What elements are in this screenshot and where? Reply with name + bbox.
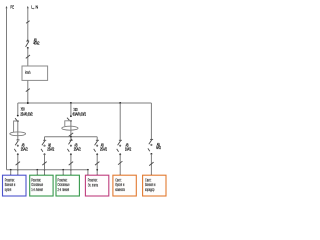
switch branch6 blade [148,148,150,151]
switch branch1 blade [14,149,16,152]
wire branch2 lower [44,145,46,147]
bus 2 horizontal [45,136,98,138]
wire branch3 to bus2 [70,121,72,137]
svg-text:25А/2: 25А/2 [74,147,81,152]
breaker branch1 tick [17,139,20,141]
svg-text:10А/2: 10А/2 [125,146,132,151]
switch branch2 bottom contact dot [44,153,46,155]
PE feeder arrow [6,6,8,8]
junction dot branch3 on bus1 [70,102,72,104]
wire L,N mid [27,48,29,66]
switch branch3 bottom contact dot [70,153,72,155]
PE stub to box4 [87,169,89,176]
conductor slash branch6 [149,162,153,166]
PE bus horizontal [7,169,88,171]
breaker branch3 tick [70,139,73,141]
wire branch4 to box [96,154,98,175]
wire branch3 to box [70,154,72,175]
box entry dot branch1 [17,175,19,177]
wire branch2 from bus2 [44,137,46,141]
switch branch6 bottom contact dot [150,153,152,155]
label AB 6A/2 branch6 [156,142,161,150]
label AB 10A/2 branch5 [125,143,132,152]
RCD UZO2 differential transformer ellipse [62,126,78,130]
wire PE vertical [6,8,8,170]
wire branch1 lower [17,145,19,147]
svg-text:6А/2: 6А/2 [156,145,161,150]
label UZO1 [20,107,33,117]
RCD UZO2 bottom contact dot [70,120,72,122]
svg-text:kWh: kWh [25,70,31,75]
breaker branch1 dot [17,145,19,147]
load box 3 sockets main line2 [56,175,79,196]
circuit breaker QF1 top contact dot [27,40,28,41]
breaker branch4 blade [95,141,98,146]
crossing dot branch3 PE bus [70,169,72,171]
wire branch3 from bus2 down [70,137,72,141]
RCD UZO1 bottom contact dot [17,120,19,122]
switch branch5 bottom contact dot [119,153,121,155]
wire branch3 lower [70,145,72,147]
junction dot L,N to bus1 [27,102,29,104]
svg-text:Эл. плита: Эл. плита [88,183,99,188]
wire L,N vertical upper [27,8,29,41]
RCD UZO1 blade [15,118,17,120]
RCD UZO1 top contact dot [17,115,19,117]
crossing dot branch2 PE bus [44,169,46,171]
svg-text:L, N: L, N [31,5,38,10]
conductor slash below QF1 [26,55,30,58]
svg-text:25А/2: 25А/2 [100,147,107,152]
switch branch4 bottom contact dot [96,153,98,155]
label AB 25A/2 branch4 [100,142,107,151]
svg-text:1-я линия: 1-я линия [31,187,43,192]
wire branch6 lower [150,144,152,146]
box entry dot branch2 [44,175,46,177]
breaker branch5 blade [118,141,121,146]
breaker branch5 tick [119,139,122,141]
circuit breaker QF1 blade [26,42,29,47]
svg-text:PE: PE [10,5,14,10]
load box 6 light bathroom corridor [143,175,166,196]
breaker branch3 dot [70,145,72,147]
svg-text:коридор: коридор [145,187,155,192]
wire branch6 to box [150,154,152,176]
svg-text:63А/0,03/2: 63А/0,03/2 [73,112,87,117]
breaker branch4 tick [96,139,99,141]
crossing dot branch1 PE bus [17,169,19,171]
switch branch1 bottom contact dot [17,153,19,155]
switch branch3 blade [67,149,69,152]
svg-text:40А/2: 40А/2 [33,41,39,46]
wire branch3 from bus1 [70,103,72,116]
box entry dot branch5 [119,175,121,177]
RCD UZO2 blade [67,118,69,121]
PE stub to box1 [10,169,12,176]
crossing dot branch4 PE bus [96,169,98,171]
wire branch1 mid [17,121,19,140]
PE stub to box3 [62,169,64,176]
load box 2 sockets main line1 [30,175,53,196]
conductor slash branch2 [42,162,46,166]
box entry dot branch4 [96,175,98,177]
junction dot UZO2 bus2 [70,136,72,138]
conductor slash branch3 lower [69,162,73,166]
RCD UZO1 trip linkage hook [14,121,18,133]
svg-text:кухня: кухня [5,187,12,192]
wire branch1 from bus1 [17,103,19,116]
breaker branch1 blade [15,141,18,146]
RCD UZO2 trip linkage hook [65,121,71,126]
label AB 25A/2 branch2 [47,142,54,151]
box entry dot branch3 [70,175,72,177]
svg-text:25А/2: 25А/2 [47,147,54,152]
switch branch2 blade [41,149,43,152]
load box 5 light kitchen room [113,175,136,196]
conductor slash below meter [26,89,30,92]
svg-text:25А/0,03/2: 25А/0,03/2 [20,112,33,117]
label AB 25A/2 branch3 [74,142,81,151]
RCD UZO2 top contact dot [70,115,72,117]
label AB 25A/2 branch1 [21,142,28,151]
breaker branch2 dot [44,145,46,147]
breaker branch2 blade [42,141,45,146]
conductor slash branch5 [118,161,122,165]
breaker branch6 blade [149,140,152,145]
breaker branch5 dot [119,145,121,147]
junction dot branch5 on bus1 [119,102,121,104]
bus 1 horizontal [18,102,152,104]
wire branch5 lower [119,145,121,147]
wire branch1 to box [17,154,19,175]
breaker branch4 dot [96,145,98,147]
breaker branch2 tick [43,139,46,141]
wire branch5 to box [119,154,121,175]
circuit breaker QF1 tick [26,40,29,42]
box entry dot branch6 [151,175,153,177]
conductor slash branch4 [95,162,99,166]
conductor slash branch1 [16,162,20,166]
breaker branch3 blade [69,139,73,145]
load box 1 sockets bathroom kitchen [3,175,27,196]
RCD UZO1 differential transformer ellipse [10,132,26,136]
conductor slash on L,N [26,21,30,23]
svg-text:2-я линия: 2-я линия [58,187,70,192]
switch branch4 blade [94,149,96,152]
label UZO2 [73,107,87,117]
wire branch6 from bus1 [150,103,152,139]
L,N feeder arrow [27,6,29,8]
conductor slash UZO2 below [69,133,74,136]
wire branch4 from bus2 [96,137,98,141]
PE stub to box2 [36,169,38,176]
breaker branch6 dot [150,144,152,146]
circuit breaker QF1 contact dot [27,47,29,49]
breaker branch6 tick [150,138,153,140]
switch branch5 blade [117,149,119,152]
wire L,N lower [27,81,29,104]
kWh meter box [22,66,48,80]
wire branch5 from bus1 [119,103,121,140]
svg-text:комната: комната [115,187,125,192]
load box 4 sockets stove [85,175,108,196]
wire branch4 lower [96,145,98,147]
svg-text:25А/2: 25А/2 [21,146,28,151]
label AB 40A/2 [33,37,39,45]
wire branch2 to box [44,154,46,175]
